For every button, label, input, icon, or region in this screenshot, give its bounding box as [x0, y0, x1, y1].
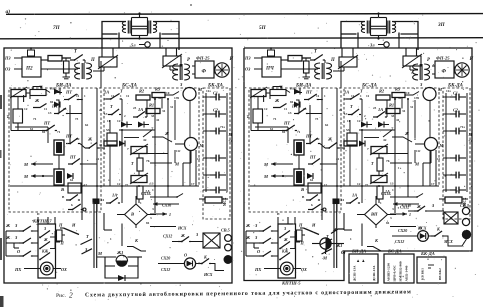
svg-text:49: 49 [398, 96, 402, 100]
diode pair [54, 89, 60, 95]
svg-text:72: 72 [469, 139, 473, 143]
wire vertical bus 3 [361, 130, 363, 203]
wire loop bottom [105, 257, 138, 278]
svg-text:71: 71 [33, 117, 37, 121]
svg-text:ПТ: ПТ [283, 121, 290, 126]
terminal circle 2 [462, 218, 469, 225]
adjustable resistor BS a [371, 147, 387, 154]
svg-text:ИСХ: ИСХ [203, 272, 213, 277]
wire to lamp Z [165, 92, 179, 96]
wire BS horizontals extra [359, 129, 395, 131]
svg-text:СХ12: СХ12 [163, 234, 172, 239]
svg-text:Ф: Ф [442, 69, 447, 75]
svg-text:БС-ДА: БС-ДА [387, 249, 402, 254]
rectifier bridge ВП [365, 204, 388, 225]
svg-text:М: М [228, 132, 233, 137]
power supply ПЧ [262, 57, 281, 77]
svg-text:13: 13 [63, 107, 67, 111]
svg-text:ПЧ: ПЧ [265, 66, 275, 72]
wire transformer outer leads left [102, 22, 126, 35]
contact with stud [308, 209, 313, 211]
diode BS mid [121, 122, 127, 128]
relay coil B [294, 169, 304, 185]
relay coil A [54, 140, 64, 155]
resistor vertical [305, 58, 307, 61]
svg-text:АШ2-1440: АШ2-1440 [405, 265, 409, 281]
wire lamp to bus [430, 151, 432, 164]
svg-text:П: П [330, 58, 335, 63]
contact below V [306, 199, 310, 201]
svg-text:П: П [90, 58, 95, 63]
wire vertical bus 1 [154, 99, 156, 213]
svg-text:33: 33 [151, 114, 155, 118]
adjustable resistor BS b [371, 176, 387, 183]
svg-text:53: 53 [106, 128, 110, 132]
wire bridge leads [388, 214, 397, 216]
svg-text:10: 10 [406, 91, 410, 95]
wire transformer outer leads right [153, 22, 179, 35]
junction dots bus [81, 185, 83, 187]
svg-text:13: 13 [48, 111, 52, 115]
terminal circle 1 [462, 207, 469, 214]
svg-text:В: В [300, 187, 304, 192]
fuse on supply [268, 50, 275, 56]
wire kptsh inner stubs [50, 236, 55, 238]
vertical resistor T BS [377, 158, 383, 171]
wires BI-DA verticals [321, 88, 323, 212]
svg-text:1А: 1А [344, 90, 349, 95]
wire double vertical bus [333, 200, 335, 268]
svg-text:3П: 3П [437, 22, 446, 28]
adjustable resistor BS b [131, 176, 147, 183]
adjustable resistor row1a [251, 90, 266, 97]
svg-text:13: 13 [390, 182, 394, 186]
svg-text:ПТ: ПТ [305, 134, 312, 139]
svg-text:СХ16: СХ16 [162, 203, 171, 208]
svg-text:Т: Т [247, 114, 250, 119]
wire BK bus left [205, 93, 207, 192]
diode mid right [119, 141, 125, 147]
svg-text:42: 42 [96, 157, 100, 161]
wire [62, 57, 71, 59]
svg-text:КЖ: КЖ [281, 250, 289, 254]
svg-text:ПЗ: ПЗ [4, 56, 11, 61]
svg-text:ПТ: ПТ [69, 155, 76, 160]
svg-text:З: З [283, 226, 286, 231]
svg-text:КПТШ-5: КПТШ-5 [281, 281, 301, 286]
svg-text:42: 42 [143, 138, 147, 142]
svg-text:ПТ: ПТ [305, 90, 312, 95]
wire BK bus right [226, 93, 228, 192]
signal lamp Zh lower [425, 138, 438, 151]
wire lamp to bus [190, 151, 192, 164]
svg-text:СХ20: СХ20 [398, 228, 407, 233]
svg-text:ПТ: ПТ [65, 90, 72, 95]
adjustable resistor BS a [131, 147, 147, 154]
svg-text:R5: R5 [395, 87, 401, 92]
svg-text:Ж: Ж [416, 204, 421, 209]
svg-text:10: 10 [166, 91, 170, 95]
wire arrow 1 [150, 213, 167, 215]
relay T [13, 109, 23, 123]
svg-text:ПТ: ПТ [65, 134, 72, 139]
svg-text:R2: R2 [139, 89, 145, 94]
svg-text:62: 62 [325, 123, 329, 127]
svg-text:31: 31 [402, 109, 406, 113]
wire right mid verticals [182, 163, 184, 186]
wire kptsh top leads [277, 217, 279, 224]
rectifier bridge В [125, 204, 148, 225]
adjustable resistor row1b [30, 90, 46, 96]
wire vertical bus 1 [394, 99, 396, 213]
svg-text:ПХ: ПХ [14, 267, 22, 272]
svg-text:П2: П2 [25, 66, 33, 72]
svg-text:СХ12: СХ12 [395, 239, 404, 244]
adjustable resistor row1a [11, 90, 26, 97]
diode at relay B [307, 173, 313, 179]
signal lamp Zh lower [185, 138, 198, 151]
svg-text:R1: R1 [149, 103, 154, 108]
svg-text:Ф: Ф [202, 69, 207, 75]
svg-text:ДСШ-13А: ДСШ-13А [353, 265, 357, 281]
svg-text:42: 42 [336, 157, 340, 161]
svg-text:73: 73 [75, 117, 79, 121]
resistor MSKh BK [445, 197, 462, 203]
svg-text:11: 11 [126, 94, 130, 98]
svg-text:Ж: Ж [34, 98, 40, 103]
diode bottom [118, 275, 125, 281]
svg-text:П1: П1 [50, 87, 55, 91]
relay V box [68, 183, 81, 193]
svg-text:СВ.5: СВ.5 [221, 228, 230, 233]
svg-text:В: В [60, 187, 64, 192]
choke transformer DT1 winding [361, 22, 365, 33]
wire T box lower bus [17, 123, 19, 127]
wire right mid verticals [422, 163, 424, 186]
svg-text:11: 11 [347, 119, 350, 123]
diode pair [294, 89, 300, 95]
svg-text:Ж: Ж [43, 237, 48, 242]
svg-text:КЖ: КЖ [41, 250, 49, 254]
svg-text:11т: 11т [176, 149, 181, 153]
svg-text:▲ ▲: ▲ ▲ [356, 258, 365, 263]
horizontal resistor mid [344, 141, 357, 146]
junction dots bus [321, 185, 323, 187]
svg-text:П: П [298, 223, 303, 228]
wire supply output [281, 59, 288, 61]
wire center connector [371, 17, 387, 19]
svg-text:49: 49 [158, 96, 162, 100]
wire double vertical bus [93, 200, 95, 268]
svg-text:139: 139 [174, 96, 179, 100]
wires BS-DA [361, 99, 363, 117]
svg-text:ПХ: ПХ [254, 267, 262, 272]
svg-text:МСХ: МСХ [223, 197, 227, 206]
wires BS-DA [121, 99, 123, 117]
svg-text:139: 139 [414, 96, 419, 100]
svg-text:В: В [130, 212, 134, 217]
svg-text:Ж: Ж [180, 233, 185, 238]
svg-text:76: 76 [146, 159, 150, 163]
svg-text:ПТ: ПТ [309, 155, 316, 160]
svg-text:31: 31 [410, 105, 414, 109]
junction dots BS [154, 98, 156, 100]
wire vertical bus 4 [340, 61, 342, 88]
terminal block dark [93, 199, 99, 204]
choke transformer DT2 winding [392, 22, 396, 33]
diode BS mid [361, 122, 367, 128]
relay T [253, 109, 263, 123]
svg-text:R5: R5 [155, 87, 161, 92]
svg-text:Ж: Ж [283, 237, 288, 242]
wires to KPTSh [6, 230, 19, 232]
svg-text:М: М [468, 132, 473, 137]
diode at relay B [67, 173, 73, 179]
svg-text:ВП: ВП [370, 212, 378, 217]
svg-text:НМПШ2-900: НМПШ2-900 [399, 261, 403, 281]
svg-text:1А: 1А [112, 193, 117, 198]
svg-text:1А: 1А [104, 90, 109, 95]
svg-text:12: 12 [357, 119, 361, 123]
wire transformer outer leads right [392, 22, 418, 35]
svg-text:71: 71 [297, 130, 301, 134]
svg-text:Т: Т [110, 104, 113, 109]
svg-text:1: 1 [152, 188, 154, 192]
svg-text:12: 12 [24, 107, 28, 111]
wire stub box [297, 230, 303, 241]
wire arrester2 leads [165, 48, 167, 56]
scan edge marks [0, 95, 2, 109]
choke transformer DT2 winding [153, 22, 157, 33]
resistor MSKh BK [205, 197, 222, 203]
wire vertical bus 2 [167, 99, 169, 197]
svg-text:СХ12: СХ12 [161, 267, 170, 272]
svg-text:З: З [43, 226, 46, 231]
svg-text:71з: 71з [220, 125, 225, 129]
wire stub box [57, 230, 63, 241]
svg-text:ИСХ: ИСХ [177, 226, 187, 231]
svg-text:13: 13 [150, 182, 154, 186]
wire bottom buses [321, 212, 323, 220]
svg-text:71: 71 [57, 130, 61, 134]
svg-text:ПТ: ПТ [291, 104, 298, 109]
wire stub P [296, 241, 301, 243]
relay V box [308, 183, 321, 193]
svg-text:СХ12: СХ12 [400, 205, 409, 210]
svg-text:О: О [419, 226, 422, 231]
svg-text:3л: 3л [369, 43, 375, 48]
svg-text:11: 11 [107, 119, 110, 123]
motor PKh/OKh [280, 262, 293, 275]
arrester 1 [339, 57, 357, 67]
svg-text:31: 31 [170, 105, 174, 109]
svg-text:П1: П1 [290, 87, 295, 91]
svg-text:АНШ5-1230: АНШ5-1230 [387, 263, 391, 282]
svg-text:б): б) [341, 249, 346, 256]
arrester 2 [403, 56, 421, 66]
wire filter to motor [432, 65, 435, 67]
svg-text:КВ БК1: КВ БК1 [421, 268, 425, 280]
wire Zh1 row [97, 256, 117, 258]
svg-text:И: И [71, 223, 76, 228]
fuse on supply [28, 50, 35, 56]
svg-text:Ж: Ж [274, 98, 280, 103]
svg-text:3: 3 [152, 207, 154, 211]
wire transformer outer leads left [341, 22, 365, 35]
svg-text:Т: Т [86, 234, 89, 239]
contact below V [66, 199, 70, 201]
wire BS verticals extra [386, 100, 388, 117]
svg-text:ФП-25: ФП-25 [196, 56, 210, 61]
svg-text:12: 12 [264, 107, 268, 111]
vertical resistor 1A BS [377, 186, 383, 199]
capacitor C3 [450, 130, 456, 132]
svg-text:73: 73 [315, 117, 319, 121]
vertical resistor 1A BS [137, 186, 143, 199]
wire BS verticals extra [146, 100, 148, 117]
junction dots BS [394, 98, 396, 100]
wire Zh1 leads [312, 243, 320, 245]
svg-text:БК-ДА: БК-ДА [420, 251, 435, 256]
svg-text:11: 11 [44, 107, 47, 111]
svg-text:17: 17 [431, 182, 435, 186]
wire arrester1 leads [341, 48, 343, 57]
terminal circle 1 [225, 235, 232, 242]
svg-text:Т: Т [371, 161, 374, 166]
wire top rail line 2 [0, 38, 483, 39]
svg-text:1А: 1А [352, 193, 357, 198]
svg-text:17: 17 [191, 182, 195, 186]
svg-text:76: 76 [386, 159, 390, 163]
svg-text:61: 61 [270, 127, 274, 131]
contact Zh row1 [33, 104, 47, 108]
wire top rail line 1 [6, 13, 483, 16]
wire arrester2 leads [405, 48, 407, 56]
svg-text:81: 81 [386, 221, 390, 225]
capacitor C3 [210, 130, 216, 132]
svg-text:И: И [229, 57, 234, 62]
svg-text:ОЗ: ОЗ [245, 67, 251, 72]
svg-text:81: 81 [146, 221, 150, 225]
svg-text:7П: 7П [53, 25, 61, 31]
svg-text:1А: 1А [138, 107, 143, 112]
wire supply output [41, 59, 48, 61]
svg-text:11: 11 [437, 157, 440, 161]
svg-text:СХ20: СХ20 [161, 256, 170, 261]
wire arrow 1 [390, 213, 407, 215]
svg-text:П: П [300, 241, 305, 246]
svg-text:П: П [60, 241, 65, 246]
svg-text:П: П [58, 223, 63, 228]
wire stub P [56, 241, 61, 243]
relay coil B [54, 169, 64, 185]
svg-text:ПТ: ПТ [51, 104, 58, 109]
wire supply lower [281, 68, 318, 70]
diode BS mid2 [378, 122, 384, 128]
svg-text:2: 2 [69, 291, 73, 300]
svg-text:41: 41 [156, 118, 160, 122]
svg-text:71з: 71з [460, 125, 465, 129]
svg-text:Т: Т [360, 89, 363, 94]
svg-text:11: 11 [101, 198, 105, 202]
svg-text:7: 7 [367, 147, 369, 151]
arrester 1 [99, 57, 117, 67]
resistor row1 [48, 56, 62, 62]
resistor row1 [288, 56, 302, 62]
svg-text:О: О [184, 253, 187, 258]
wire [302, 57, 311, 59]
svg-text:5л: 5л [131, 43, 136, 48]
wire main horizontal bus [250, 185, 439, 187]
svg-text:21: 21 [339, 108, 343, 112]
svg-text:ДСШ-13А: ДСШ-13А [372, 265, 376, 281]
svg-text:11: 11 [341, 198, 345, 202]
svg-text:41: 41 [339, 143, 343, 147]
svg-text:33: 33 [391, 114, 395, 118]
svg-text:13: 13 [288, 111, 292, 115]
svg-text:СХ1Б: СХ1Б [141, 191, 151, 196]
svg-text:ВВ БК2: ВВ БК2 [438, 268, 442, 280]
terminal circle filled [224, 256, 232, 264]
svg-text:1: 1 [169, 212, 171, 217]
wire arrester1 leads [101, 48, 103, 57]
contact Zh row1 [273, 104, 287, 108]
relay coil A [294, 140, 304, 155]
block outer border [4, 48, 232, 283]
svg-text:12: 12 [357, 182, 361, 186]
svg-text:42: 42 [383, 138, 387, 142]
svg-text:61: 61 [30, 127, 34, 131]
wire center connector [132, 17, 148, 19]
svg-text:21: 21 [99, 108, 103, 112]
svg-text:Р: Р [427, 58, 430, 63]
terminal circle filled [462, 230, 470, 238]
svg-text:ОЗ: ОЗ [5, 67, 11, 72]
arrester 2 [163, 56, 181, 66]
svg-text:72: 72 [229, 139, 233, 143]
svg-text:БИ-ДА: БИ-ДА [351, 249, 366, 254]
svg-text:61: 61 [70, 178, 74, 182]
svg-text:12: 12 [117, 119, 121, 123]
arrow M mid [390, 162, 412, 164]
cable box X [444, 212, 458, 224]
svg-text:23: 23 [133, 106, 137, 110]
svg-text:7: 7 [127, 147, 129, 151]
svg-text:13: 13 [303, 107, 307, 111]
relay box mid [107, 133, 117, 145]
svg-text:3: 3 [392, 207, 394, 211]
svg-text:23: 23 [373, 106, 377, 110]
wire BS horizontals extra [119, 129, 155, 131]
svg-text:Т: Т [131, 161, 134, 166]
wire leads below rail [357, 39, 359, 49]
svg-text:62: 62 [85, 123, 89, 127]
wires BI-DA horizontals [26, 92, 30, 94]
svg-text:R1: R1 [389, 103, 394, 108]
wire T box lower bus [257, 123, 259, 127]
svg-text:31: 31 [162, 109, 166, 113]
svg-text:1: 1 [392, 188, 394, 192]
wire BK bus right [466, 93, 468, 192]
wire supply lower [41, 68, 78, 70]
choke transformer DT1 winding [122, 22, 126, 33]
svg-text:КПТШ-7: КПТШ-7 [32, 219, 52, 224]
svg-text:ПЗ: ПЗ [244, 56, 251, 61]
wire bottom buses [81, 212, 83, 220]
resistor vertical [65, 58, 67, 61]
wire filter to motor [192, 65, 195, 67]
terminal circle 2 [225, 244, 232, 251]
